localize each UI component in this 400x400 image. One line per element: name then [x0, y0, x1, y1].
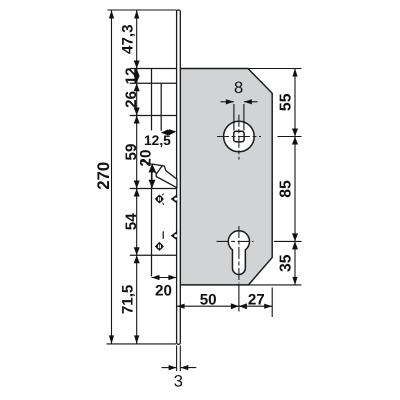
- svg-text:8: 8: [234, 79, 243, 97]
- horizontal line y=115.5: [130, 115, 177, 117]
- case top edge extension line to right dim: [248, 68, 302, 70]
- svg-text:3: 3: [174, 373, 183, 391]
- edge screw on faceplate (lower): [171, 231, 178, 240]
- dimension column 1 (270): [111, 10, 113, 344]
- svg-text:20: 20: [155, 283, 172, 300]
- svg-text:35: 35: [278, 254, 295, 272]
- lock case body (gray, chamfered corners): [180, 69, 272, 285]
- svg-text:85: 85: [278, 180, 295, 198]
- latch bolt bevel line: [156, 166, 162, 175]
- svg-text:12: 12: [123, 67, 140, 84]
- latch bolt body: [152, 164, 177, 188]
- svg-text:20: 20: [138, 150, 155, 167]
- dimension column 2 (47.3/12/26/59/54/71.5): [136, 10, 138, 344]
- 3mm faceplate dimension: [162, 346, 197, 372]
- svg-text:12,5: 12,5: [144, 133, 171, 148]
- spindle hole circle: [224, 121, 255, 152]
- left rectangle vertical x=151.5 (interrupted behind labels): [151, 69, 153, 131]
- svg-text:47,3: 47,3: [119, 24, 136, 54]
- horizontal line y=68.5 (case top, left of faceplate): [130, 68, 177, 70]
- edge screw on faceplate (upper): [171, 194, 178, 203]
- 20 vertical dimension (latch): [151, 164, 153, 188]
- spindle square 8mm: [234, 131, 244, 141]
- arrowheads chain dims: [134, 10, 139, 19]
- case bottom edge extension line to right dim: [249, 284, 302, 286]
- screw symbol bottom-left: [155, 242, 164, 251]
- extension line bottom (y=343.9): [107, 343, 177, 345]
- bowtie arrows at intermediate boundaries col2: [134, 61, 140, 264]
- spindle hole crosshair (centerlines): [217, 115, 261, 160]
- cylinder hole crosshair (centerlines): [217, 226, 254, 284]
- 8mm square dimension: [221, 102, 258, 131]
- horizontal line y=188.5: [130, 188, 177, 190]
- small tick above bottom-left screw: [162, 231, 164, 239]
- extension line top (y=10): [108, 9, 177, 11]
- inner vertical x=161.2: [160, 83, 162, 130]
- faceplate (3mm strip): [177, 10, 181, 344]
- screw symbol top-left: [155, 194, 164, 205]
- arrowheads 270 dim: [109, 10, 114, 19]
- svg-text:270: 270: [94, 162, 113, 190]
- right dimension column (55/85/35): [274, 69, 302, 285]
- svg-text:26: 26: [123, 91, 140, 108]
- horizontal line y=255.2: [130, 254, 177, 256]
- horizontal line y=83.3: [130, 82, 177, 84]
- 50 / 27 dimension (bottom): [177, 285, 273, 317]
- 12.5 dimension diamond: [161, 129, 177, 136]
- 20 horizontal dimension (bottom left): [152, 277, 177, 279]
- euro cylinder hole: [228, 231, 249, 275]
- svg-text:54: 54: [123, 213, 140, 230]
- svg-text:55: 55: [278, 93, 295, 111]
- latch bolt spring curve: [141, 161, 151, 164]
- svg-text:27: 27: [248, 292, 265, 309]
- svg-text:71,5: 71,5: [119, 284, 136, 314]
- svg-text:50: 50: [200, 292, 217, 309]
